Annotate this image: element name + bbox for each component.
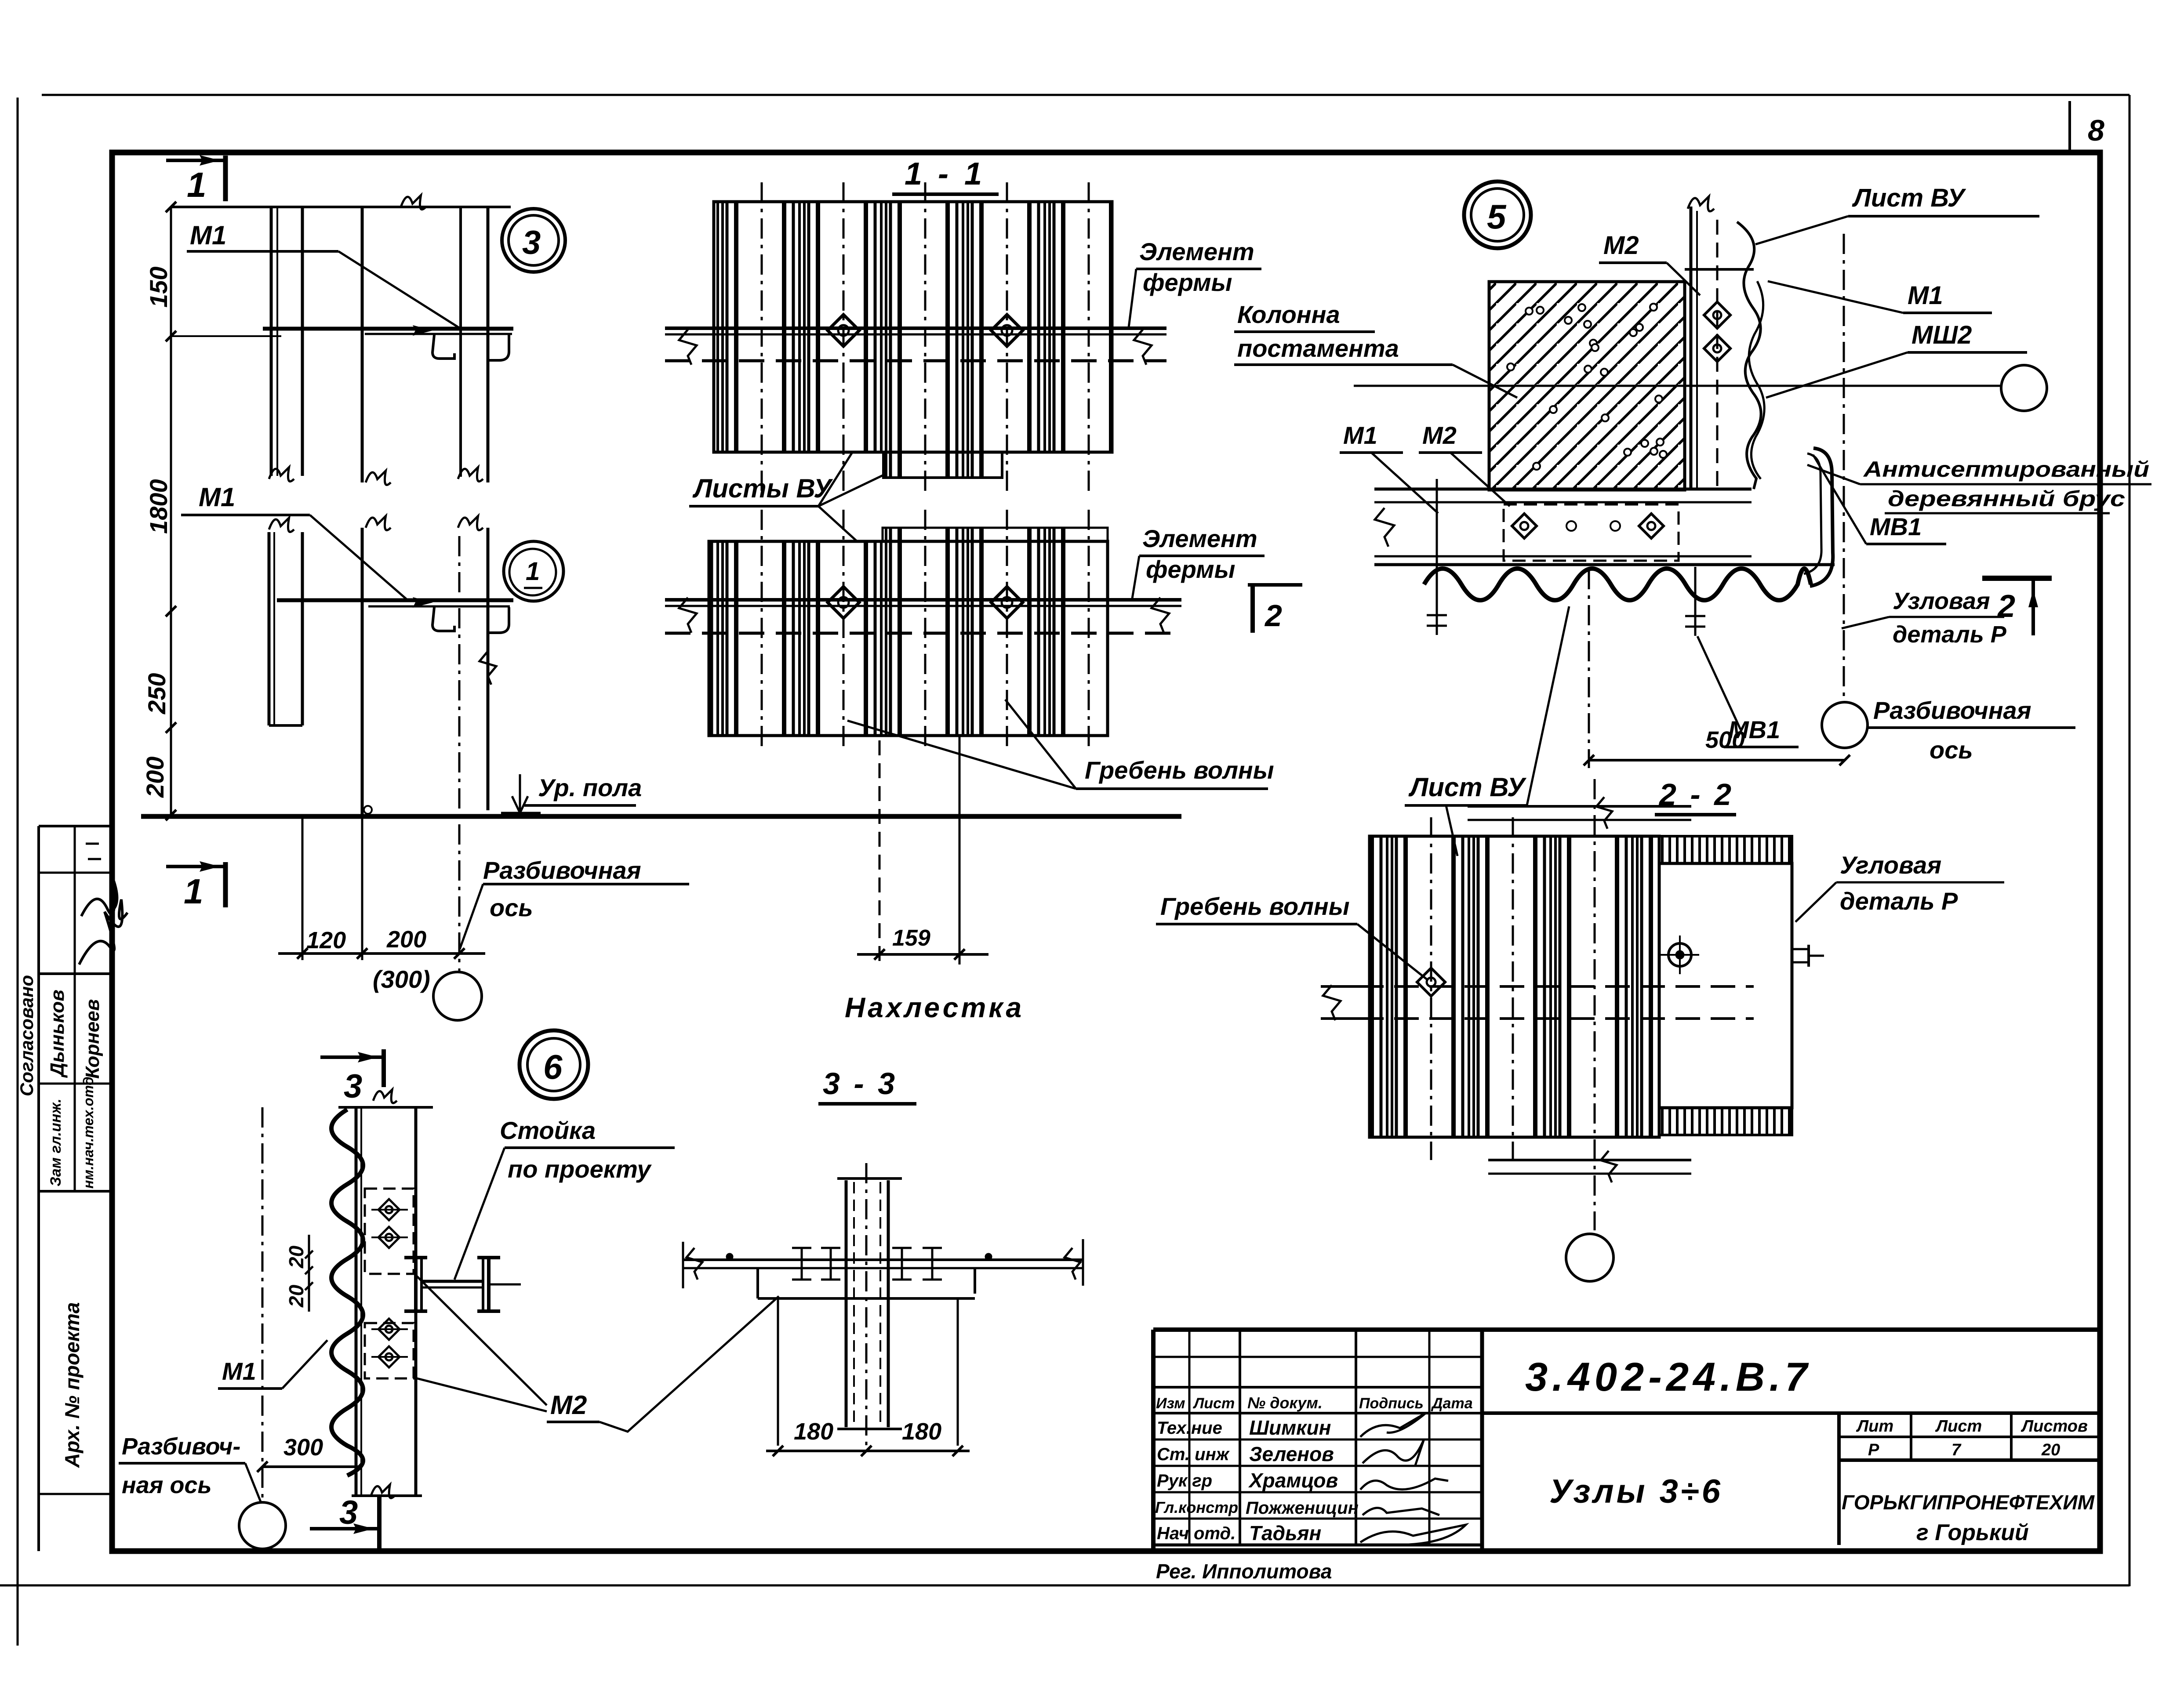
svg-text:М2: М2 — [1603, 231, 1639, 260]
svg-text:3: 3 — [339, 1494, 358, 1531]
svg-text:20: 20 — [285, 1245, 308, 1269]
svg-text:500: 500 — [1705, 727, 1745, 753]
outer border left line — [17, 98, 19, 1646]
sheet 3-3 — [683, 1258, 1083, 1261]
column A upper — [270, 207, 273, 476]
svg-text:6: 6 — [543, 1048, 563, 1086]
side bolt 2-2 — [1792, 948, 1809, 950]
corner plate 2-2 — [1659, 863, 1792, 1108]
svg-text:Согласовано: Согласовано — [16, 975, 37, 1096]
svg-text:Разбивочная: Разбивочная — [483, 856, 641, 884]
post detail6 — [355, 1107, 358, 1496]
razbiv axis detail5 — [1843, 234, 1845, 702]
svg-text:Гребень волны: Гребень волны — [1085, 756, 1274, 784]
dim 180 180 — [766, 1450, 970, 1452]
svg-text:Шимкин: Шимкин — [1249, 1416, 1331, 1439]
svg-text:Подпись: Подпись — [1359, 1395, 1424, 1412]
column B lower — [361, 528, 364, 816]
svg-text:Р: Р — [1868, 1441, 1879, 1459]
plate M1 dashed upper — [365, 1189, 414, 1274]
svg-text:1800: 1800 — [145, 479, 172, 534]
svg-text:ная ось: ная ось — [122, 1472, 212, 1498]
svg-text:фермы: фермы — [1143, 268, 1232, 296]
svg-text:Арх. № проекта: Арх. № проекта — [61, 1302, 84, 1468]
svg-text:2: 2 — [1997, 589, 2015, 624]
svg-text:300: 300 — [283, 1434, 323, 1461]
razbiv axis bubble detail3 — [433, 972, 482, 1020]
svg-text:МШ2: МШ2 — [1911, 321, 1972, 349]
svg-text:Дата: Дата — [1431, 1395, 1473, 1412]
svg-text:М1: М1 — [190, 221, 226, 250]
svg-text:3: 3 — [344, 1068, 362, 1105]
section mark 1 bottom — [166, 865, 225, 868]
outer border bottom line — [0, 1584, 2129, 1587]
bottom horizontal band detail5 — [1374, 488, 1752, 491]
svg-text:(300): (300) — [373, 965, 430, 993]
post 3-3 — [845, 1180, 848, 1427]
section mark 1 top — [166, 159, 225, 162]
svg-text:3 - 3: 3 - 3 — [823, 1066, 898, 1101]
svg-text:150: 150 — [145, 267, 172, 308]
cap lines bottom 2-2 — [1488, 1159, 1691, 1161]
bolt 2-2 — [1668, 943, 1691, 966]
cap lines top 2-2 — [1468, 805, 1691, 808]
column B upper — [361, 207, 364, 482]
detail3 axis line — [458, 536, 461, 971]
svg-text:ось: ось — [490, 894, 533, 921]
detail3 top edge line — [171, 206, 511, 208]
svg-text:Ур. пола: Ур. пола — [538, 774, 642, 801]
nahlestka dim 159 — [879, 740, 881, 964]
bottom dim 120 200 — [302, 817, 304, 960]
svg-text:деревянный брус: деревянный брус — [1888, 486, 2125, 511]
fastener diamonds upper band — [828, 315, 859, 346]
sheet VU lower panel — [883, 528, 1108, 541]
rivet marks — [1436, 479, 1438, 635]
strip wavy edge — [1737, 222, 1761, 489]
title block verticals left table — [1188, 1330, 1191, 1545]
main frame — [112, 152, 2100, 1551]
svg-text:7: 7 — [1951, 1441, 1962, 1459]
crest axes 2-2 — [1430, 817, 1432, 1160]
section mark 2 right — [1982, 576, 2052, 581]
corner piece uzlovaya detal — [1810, 448, 1833, 586]
svg-text:2: 2 — [1264, 598, 1282, 633]
svg-text:Нахлестка: Нахлестка — [845, 992, 1024, 1023]
svg-text:Рук гр: Рук гр — [1157, 1471, 1212, 1490]
sheet VU panel 2-2 — [1370, 836, 1659, 1137]
svg-text:М2: М2 — [1422, 421, 1457, 449]
fastener diamond 2-2 — [1417, 968, 1445, 996]
node bubble 6 — [520, 1030, 588, 1099]
svg-text:200: 200 — [386, 926, 426, 953]
floor line — [141, 814, 1181, 819]
svg-text:Изм: Изм — [1156, 1395, 1185, 1412]
svg-text:Зеленов: Зеленов — [1249, 1443, 1334, 1465]
concrete dots — [1507, 304, 1667, 470]
svg-text:Лист: Лист — [1935, 1417, 1982, 1436]
svg-text:Ст. инж: Ст. инж — [1157, 1445, 1230, 1464]
element dashed band 2-2 — [1324, 985, 1754, 988]
bracket M1 upper — [263, 327, 513, 331]
svg-text:1 - 1: 1 - 1 — [905, 156, 985, 192]
svg-text:Стойка: Стойка — [500, 1117, 596, 1144]
svg-text:Рег. Ипполитова: Рег. Ипполитова — [1156, 1560, 1332, 1583]
sheet VU upper panel — [714, 202, 1112, 452]
lit list listov table — [1837, 1413, 1841, 1545]
svg-text:Элемент: Элемент — [1142, 525, 1257, 552]
svg-text:200: 200 — [141, 757, 169, 798]
svg-text:180: 180 — [794, 1418, 833, 1445]
axis detail6 — [262, 1107, 264, 1501]
stamp row lines — [39, 825, 112, 827]
title block horizontals left table — [1153, 1356, 1482, 1358]
stamp left edge — [37, 826, 40, 1551]
svg-text:180: 180 — [902, 1418, 941, 1445]
svg-text:Нач отд.: Нач отд. — [1157, 1524, 1236, 1543]
svg-text:1: 1 — [184, 872, 204, 911]
column A lower — [268, 532, 271, 725]
svg-text:М1: М1 — [1343, 421, 1377, 449]
svg-text:постамента: постамента — [1237, 334, 1399, 362]
svg-text:ГОРЬКГИПРОНЕФТЕХИМ: ГОРЬКГИПРОНЕФТЕХИМ — [1842, 1491, 2095, 1514]
svg-text:Узлы 3÷6: Узлы 3÷6 — [1549, 1473, 1723, 1510]
svg-text:1: 1 — [526, 557, 540, 586]
svg-text:фермы: фермы — [1146, 555, 1235, 583]
svg-text:Тех.ние: Тех.ние — [1157, 1418, 1222, 1438]
svg-text:20: 20 — [2041, 1441, 2060, 1459]
I-beam stoika — [414, 1258, 418, 1311]
svg-text:Лист ВУ: Лист ВУ — [1852, 184, 1966, 212]
svg-text:Храмцов: Храмцов — [1248, 1469, 1338, 1492]
dim extension lines 3-3 — [777, 1298, 779, 1446]
truss element band upper — [665, 326, 1166, 330]
svg-text:159: 159 — [892, 925, 930, 951]
fastener diamonds lower band — [828, 587, 859, 618]
plate M1 dashed lower — [365, 1323, 414, 1378]
svg-text:Листов: Листов — [2020, 1417, 2088, 1436]
svg-text:3.402-24.В.7: 3.402-24.В.7 — [1525, 1355, 1812, 1400]
svg-text:Узловая: Узловая — [1893, 588, 1990, 614]
svg-text:Дыньков: Дыньков — [47, 990, 68, 1078]
node bubble 3 — [502, 209, 565, 272]
svg-text:Лист ВУ: Лист ВУ — [1408, 772, 1527, 802]
stamp signatures — [79, 899, 127, 964]
horizontal axis detail5 — [1354, 385, 2001, 387]
truss element band lower — [665, 598, 1181, 602]
stamp column divider — [74, 826, 76, 1191]
diamonds detail6 — [378, 1199, 400, 1220]
svg-text:деталь Р: деталь Р — [1840, 887, 1958, 915]
section mark 2 left (bottom of 1-1) — [1248, 583, 1302, 587]
title block bottom — [1153, 1548, 2100, 1554]
svg-text:МВ1: МВ1 — [1870, 513, 1922, 540]
axis bubble 2-2 — [1566, 1234, 1613, 1281]
main axis 2-2 — [1594, 779, 1596, 1230]
title block outline — [1153, 1327, 2100, 1332]
section mark 3 bottom — [310, 1527, 379, 1530]
svg-text:Пожженицин: Пожженицин — [1246, 1498, 1359, 1518]
svg-text:Элемент: Элемент — [1139, 238, 1254, 265]
svg-text:Колонна: Колонна — [1237, 301, 1340, 328]
title signatures — [1360, 1413, 1426, 1437]
svg-text:3: 3 — [522, 224, 541, 261]
pedestal column hatched block — [1489, 282, 1685, 490]
svg-text:8: 8 — [2088, 114, 2104, 147]
outer border right line — [2129, 95, 2131, 1586]
wave crest axes upper — [761, 182, 763, 494]
svg-text:Корнеев: Корнеев — [82, 999, 103, 1079]
wave crest axes lower — [761, 510, 763, 752]
svg-text:нм.нач.тех.отд: нм.нач.тех.отд — [80, 1077, 96, 1189]
hat clips 3-3 — [801, 1248, 803, 1280]
dim 20 20 — [308, 1235, 310, 1312]
sheet number cell divider — [2068, 101, 2071, 152]
svg-text:250: 250 — [143, 673, 171, 714]
bracket M1 lower — [277, 598, 513, 602]
svg-text:20: 20 — [285, 1284, 308, 1308]
detail3 dimension chain line — [170, 207, 172, 816]
svg-text:Угловая: Угловая — [1840, 851, 1941, 879]
corrugated sheet strip vertical — [1690, 207, 1693, 489]
dim 500 — [1588, 569, 1590, 768]
node bubble 5 — [1464, 181, 1531, 248]
svg-text:по проекту: по проекту — [508, 1155, 652, 1183]
svg-text:№ докум.: № докум. — [1247, 1394, 1323, 1412]
svg-text:М2: М2 — [550, 1390, 587, 1420]
node bubble 1 — [504, 541, 563, 601]
svg-text:Лист: Лист — [1192, 1395, 1235, 1412]
strip fastener diamonds — [1704, 302, 1730, 328]
svg-text:Листы ВУ: Листы ВУ — [692, 474, 833, 503]
svg-text:ось: ось — [1930, 736, 1973, 764]
svg-text:г Горький: г Горький — [1916, 1520, 2029, 1545]
outer border top line — [42, 94, 2129, 96]
svg-text:Антисептированный: Антисептированный — [1863, 457, 2149, 482]
svg-text:120: 120 — [306, 927, 346, 954]
svg-text:Гл.констр.: Гл.констр. — [1155, 1498, 1243, 1516]
svg-text:Разбивоч-: Разбивоч- — [122, 1433, 240, 1460]
svg-text:Зам гл.инж.: Зам гл.инж. — [47, 1099, 64, 1186]
wavy sheet detail6 — [331, 1109, 363, 1476]
svg-text:деталь Р: деталь Р — [1893, 621, 2007, 648]
svg-text:1: 1 — [187, 165, 207, 204]
svg-text:Тадьян: Тадьян — [1249, 1522, 1321, 1545]
svg-text:М1: М1 — [222, 1357, 256, 1385]
svg-text:Разбивочная: Разбивочная — [1873, 696, 2031, 724]
corrugated sheet wave bottom — [1424, 569, 1811, 600]
svg-text:Лит: Лит — [1856, 1417, 1893, 1436]
wood brus squiggle — [1749, 281, 1764, 479]
doc number 3.402-24.V.7 — [1482, 1411, 2100, 1415]
stamp dashes — [86, 843, 99, 845]
section mark 3 top — [320, 1055, 384, 1059]
svg-text:М1: М1 — [1908, 281, 1943, 310]
svg-text:5: 5 — [1487, 197, 1507, 236]
svg-text:Гребень волны: Гребень волны — [1160, 892, 1350, 920]
svg-text:М1: М1 — [199, 482, 235, 512]
M2 plate dashed — [1504, 504, 1679, 561]
bracket plate 3-3 — [756, 1268, 759, 1298]
